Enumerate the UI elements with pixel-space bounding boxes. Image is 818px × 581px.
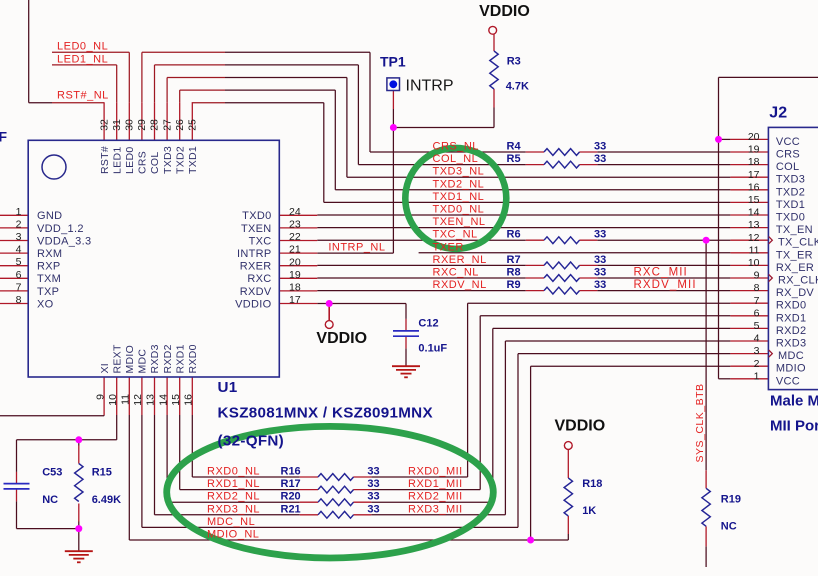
svg-text:23: 23 — [289, 219, 301, 231]
svg-text:22: 22 — [289, 231, 301, 243]
svg-text:C12: C12 — [418, 317, 438, 329]
svg-text:COL: COL — [149, 152, 161, 175]
svg-text:RXC_NL: RXC_NL — [433, 267, 479, 279]
svg-text:19: 19 — [748, 144, 760, 156]
svg-text:TX_ER: TX_ER — [776, 249, 813, 261]
svg-text:12: 12 — [132, 394, 144, 406]
svg-text:19: 19 — [289, 269, 301, 281]
svg-text:RXD1_MII: RXD1_MII — [408, 478, 463, 490]
svg-text:LED0_NL: LED0_NL — [57, 41, 108, 53]
svg-text:TXD3: TXD3 — [162, 146, 174, 174]
svg-text:MDIO_NL: MDIO_NL — [207, 529, 259, 541]
svg-text:TXD0_NL: TXD0_NL — [433, 204, 485, 216]
svg-text:32: 32 — [98, 119, 110, 131]
svg-text:18: 18 — [289, 282, 301, 294]
svg-text:33: 33 — [594, 153, 606, 165]
svg-text:4.7K: 4.7K — [506, 81, 529, 93]
svg-text:33: 33 — [367, 503, 379, 515]
svg-text:11: 11 — [749, 244, 760, 256]
svg-text:RXD3_MII: RXD3_MII — [408, 503, 463, 515]
svg-text:CRS: CRS — [776, 149, 800, 161]
svg-text:20: 20 — [289, 256, 301, 268]
svg-text:TXD0: TXD0 — [242, 210, 271, 222]
svg-text:VDD_1.2: VDD_1.2 — [37, 223, 84, 235]
svg-text:17: 17 — [289, 294, 301, 306]
svg-text:R5: R5 — [507, 153, 521, 165]
svg-text:R17: R17 — [281, 478, 301, 490]
svg-text:14: 14 — [748, 207, 760, 219]
svg-text:29: 29 — [136, 119, 148, 131]
svg-text:20: 20 — [748, 131, 760, 143]
svg-text:33: 33 — [367, 478, 379, 490]
svg-text:13: 13 — [748, 219, 760, 231]
svg-text:TX_CLK: TX_CLK — [778, 237, 818, 249]
svg-text:Male MII: Male MII — [770, 393, 818, 410]
svg-text:TP1: TP1 — [380, 54, 406, 70]
svg-text:25: 25 — [187, 119, 199, 131]
svg-text:8: 8 — [16, 294, 22, 306]
svg-text:MDIO: MDIO — [776, 363, 806, 375]
svg-text:TXC: TXC — [249, 235, 272, 247]
svg-text:1: 1 — [754, 370, 760, 382]
svg-text:3: 3 — [16, 231, 22, 243]
svg-text:COL: COL — [776, 161, 800, 173]
svg-text:4: 4 — [16, 244, 22, 256]
svg-text:CRS: CRS — [137, 151, 149, 174]
svg-text:TXP: TXP — [37, 286, 59, 298]
svg-text:7: 7 — [754, 295, 760, 307]
svg-text:28: 28 — [149, 119, 161, 131]
svg-text:1K: 1K — [582, 505, 596, 517]
svg-text:VDDIO: VDDIO — [316, 330, 367, 347]
svg-text:5: 5 — [16, 256, 22, 268]
svg-text:TXER: TXER — [433, 241, 464, 253]
svg-text:33: 33 — [367, 491, 379, 503]
svg-text:MII Port: MII Port — [770, 418, 818, 435]
svg-text:TXD3: TXD3 — [776, 174, 805, 186]
svg-text:RXER: RXER — [240, 261, 272, 273]
svg-text:R19: R19 — [721, 494, 741, 506]
svg-text:26: 26 — [174, 119, 186, 131]
svg-text:3: 3 — [754, 345, 760, 357]
svg-text:COL_NL: COL_NL — [433, 153, 479, 165]
svg-text:9: 9 — [754, 270, 760, 282]
svg-text:INTRP: INTRP — [406, 78, 454, 95]
svg-text:MDC: MDC — [137, 349, 149, 374]
svg-text:LED1: LED1 — [111, 147, 123, 174]
svg-text:RXD0: RXD0 — [776, 300, 807, 312]
svg-text:RXD0_MII: RXD0_MII — [408, 466, 463, 478]
svg-text:2: 2 — [16, 218, 22, 230]
svg-text:R21: R21 — [281, 503, 301, 515]
svg-text:RXD3: RXD3 — [776, 338, 807, 350]
svg-text:RXER_NL: RXER_NL — [433, 254, 487, 266]
svg-text:6: 6 — [16, 269, 22, 281]
svg-text:R9: R9 — [507, 279, 521, 291]
svg-text:TX_EN: TX_EN — [776, 224, 813, 236]
svg-text:C53: C53 — [42, 466, 62, 478]
svg-text:R15: R15 — [92, 466, 112, 478]
svg-text:XI: XI — [99, 363, 111, 374]
svg-text:J2: J2 — [769, 105, 787, 122]
svg-text:RXD2: RXD2 — [776, 325, 807, 337]
svg-text:LED0: LED0 — [124, 147, 136, 174]
svg-text:16: 16 — [748, 181, 760, 193]
svg-text:R4: R4 — [507, 141, 522, 153]
svg-text:VDDA_3.3: VDDA_3.3 — [37, 235, 91, 247]
svg-text:10: 10 — [107, 394, 119, 406]
svg-text:RX_DV: RX_DV — [776, 287, 815, 299]
svg-text:TXD3_NL: TXD3_NL — [433, 166, 485, 178]
svg-text:RXDV_NL: RXDV_NL — [433, 279, 487, 291]
svg-text:TXD2_NL: TXD2_NL — [433, 178, 485, 190]
svg-text:RXD0: RXD0 — [187, 344, 199, 373]
svg-text:TXD1: TXD1 — [187, 146, 199, 174]
svg-text:U1: U1 — [218, 379, 238, 396]
svg-text:RXD3: RXD3 — [149, 344, 161, 373]
svg-text:33: 33 — [594, 267, 606, 279]
svg-text:RXC: RXC — [247, 273, 271, 285]
svg-text:MDC: MDC — [778, 350, 804, 362]
svg-text:TXD1: TXD1 — [776, 199, 805, 211]
svg-text:INTRP: INTRP — [237, 248, 272, 260]
svg-text:RX_CLK: RX_CLK — [778, 275, 818, 287]
svg-text:MDIO: MDIO — [124, 345, 136, 374]
svg-text:VCC: VCC — [776, 136, 800, 148]
svg-text:VDDIO: VDDIO — [479, 3, 530, 20]
svg-text:RXDV_MII: RXDV_MII — [634, 279, 697, 291]
svg-text:9: 9 — [94, 394, 106, 400]
svg-text:17: 17 — [748, 169, 760, 181]
svg-text:5: 5 — [754, 320, 760, 332]
svg-text:4: 4 — [754, 333, 760, 345]
svg-text:16: 16 — [183, 394, 195, 406]
svg-text:31: 31 — [111, 119, 123, 131]
svg-text:RXD1: RXD1 — [776, 312, 807, 324]
svg-text:REXT: REXT — [111, 344, 123, 373]
svg-text:RXD0_NL: RXD0_NL — [207, 466, 260, 478]
svg-text:TXEN_NL: TXEN_NL — [433, 216, 486, 228]
svg-text:15: 15 — [170, 394, 182, 406]
svg-text:33: 33 — [367, 466, 379, 478]
svg-text:RX_ER: RX_ER — [776, 262, 814, 274]
svg-text:RXD2: RXD2 — [162, 344, 174, 373]
svg-text:21: 21 — [289, 244, 301, 256]
svg-text:18: 18 — [748, 156, 760, 168]
svg-text:GND: GND — [37, 210, 62, 222]
svg-text:RST#: RST# — [99, 146, 111, 174]
svg-text:33: 33 — [594, 254, 606, 266]
svg-text:6.49K: 6.49K — [92, 494, 121, 506]
svg-text:TXD1_NL: TXD1_NL — [433, 191, 485, 203]
svg-text:33: 33 — [594, 229, 606, 241]
svg-text:RXD3_NL: RXD3_NL — [207, 503, 260, 515]
svg-text:LED1_NL: LED1_NL — [57, 53, 108, 65]
svg-text:R18: R18 — [582, 478, 602, 490]
svg-text:TXM: TXM — [37, 273, 61, 285]
svg-text:2: 2 — [754, 358, 760, 370]
svg-text:VDDIO: VDDIO — [235, 298, 271, 310]
svg-text:F: F — [0, 129, 8, 145]
svg-text:MDC_NL: MDC_NL — [207, 516, 255, 528]
svg-text:0.1uF: 0.1uF — [418, 343, 447, 355]
svg-text:1: 1 — [16, 206, 22, 218]
svg-text:10: 10 — [748, 257, 760, 269]
svg-text:TXD2: TXD2 — [776, 186, 805, 198]
svg-text:R8: R8 — [507, 267, 521, 279]
svg-text:TXC_NL: TXC_NL — [433, 229, 478, 241]
svg-text:TXD0: TXD0 — [776, 212, 805, 224]
svg-text:RST#_NL: RST#_NL — [57, 89, 109, 101]
svg-text:6: 6 — [754, 307, 760, 319]
svg-text:RXDV: RXDV — [240, 286, 272, 298]
svg-text:RXD1: RXD1 — [174, 344, 186, 373]
svg-text:RXD2_MII: RXD2_MII — [408, 491, 463, 503]
svg-text:NC: NC — [42, 494, 58, 506]
svg-text:24: 24 — [289, 206, 301, 218]
svg-text:7: 7 — [16, 281, 22, 293]
svg-text:SYS_CLK_BTB: SYS_CLK_BTB — [694, 383, 706, 462]
svg-text:VDDIO: VDDIO — [555, 418, 606, 435]
svg-text:27: 27 — [161, 119, 173, 131]
svg-text:(32-QFN): (32-QFN) — [218, 433, 285, 450]
svg-text:TXD2: TXD2 — [174, 146, 186, 174]
svg-text:TXEN: TXEN — [241, 223, 272, 235]
svg-text:RXC_MII: RXC_MII — [634, 267, 688, 279]
svg-text:R3: R3 — [507, 56, 521, 68]
svg-text:CRS_NL: CRS_NL — [433, 141, 479, 153]
svg-text:KSZ8081MNX / KSZ8091MNX: KSZ8081MNX / KSZ8091MNX — [218, 405, 433, 422]
svg-text:VCC: VCC — [776, 375, 800, 387]
svg-text:R20: R20 — [281, 491, 301, 503]
svg-text:14: 14 — [157, 394, 169, 406]
svg-text:R7: R7 — [507, 254, 521, 266]
svg-text:30: 30 — [124, 119, 136, 131]
svg-text:XO: XO — [37, 298, 54, 310]
svg-text:11: 11 — [120, 394, 132, 405]
svg-text:R16: R16 — [281, 466, 301, 478]
svg-text:33: 33 — [594, 279, 606, 291]
svg-text:RXP: RXP — [37, 261, 61, 273]
svg-text:33: 33 — [594, 141, 606, 153]
svg-text:13: 13 — [145, 394, 157, 406]
svg-text:INTRP_NL: INTRP_NL — [328, 242, 385, 254]
svg-text:8: 8 — [754, 282, 760, 294]
svg-text:12: 12 — [748, 232, 760, 244]
svg-text:RXM: RXM — [37, 248, 62, 260]
svg-text:NC: NC — [721, 520, 737, 532]
svg-text:15: 15 — [748, 194, 760, 206]
svg-text:RXD2_NL: RXD2_NL — [207, 491, 260, 503]
svg-text:RXD1_NL: RXD1_NL — [207, 478, 260, 490]
svg-text:R6: R6 — [507, 229, 521, 241]
